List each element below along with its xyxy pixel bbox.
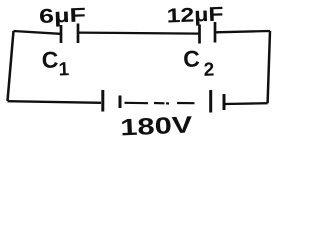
svg-text:2: 2 [203, 59, 214, 80]
wire between C1 and C2 [79, 33, 199, 34]
wire bottom-left segment [8, 101, 102, 103]
svg-text:C: C [41, 46, 59, 73]
battery BT1 left cell plates [103, 90, 120, 112]
svg-text:C: C [183, 45, 201, 72]
label C1 [41, 46, 70, 81]
svg-text:180V: 180V [120, 111, 193, 140]
wire dashed (omitted cells) [125, 102, 195, 105]
wire left side [8, 31, 14, 101]
capacitor C1 [61, 24, 78, 44]
wire battery to bottom-right corner [225, 102, 268, 105]
label C2 [183, 45, 215, 82]
svg-text:6µF: 6µF [39, 4, 87, 28]
battery BT1 right cell plates [211, 90, 224, 113]
wire C2 to top-right corner [216, 31, 270, 32]
capacitor C2 [200, 22, 216, 44]
svg-text:12µF: 12µF [166, 4, 224, 28]
svg-text:1: 1 [58, 59, 70, 80]
wire right side [268, 31, 270, 103]
wire top-left segment [14, 31, 61, 34]
